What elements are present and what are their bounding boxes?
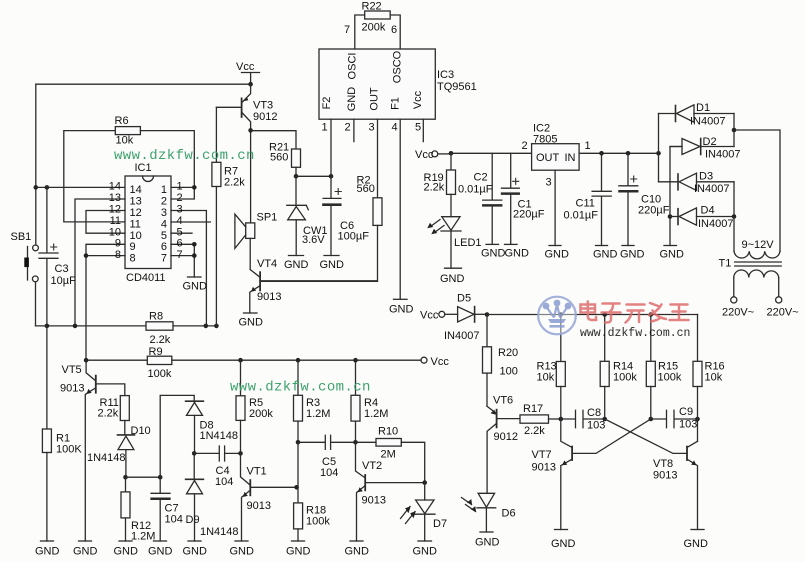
terminal Vcc R9 row <box>421 357 427 363</box>
svg-text:GND: GND <box>440 273 465 285</box>
svg-text:220V~: 220V~ <box>722 307 754 319</box>
svg-text:6: 6 <box>161 241 167 253</box>
terminal Vcc D5 row <box>439 311 458 317</box>
svg-text:3: 3 <box>161 207 167 219</box>
capacitor C1 <box>502 153 520 244</box>
svg-text:9~12V: 9~12V <box>742 239 775 251</box>
resistor R12 <box>121 477 130 541</box>
svg-text:100k: 100k <box>148 368 172 380</box>
wire pins6-7 to ground <box>171 244 194 277</box>
svg-text:11: 11 <box>110 215 121 227</box>
node D7 top <box>422 480 427 485</box>
svg-text:GND: GND <box>345 546 370 558</box>
node R18 top <box>294 485 299 490</box>
node VT1 base <box>238 451 243 456</box>
svg-text:GND: GND <box>660 249 685 261</box>
svg-text:9013: 9013 <box>532 462 556 474</box>
svg-text:220µF: 220µF <box>513 209 545 221</box>
svg-text:D2: D2 <box>703 136 717 148</box>
svg-text:GND: GND <box>73 546 98 558</box>
svg-text:C8: C8 <box>587 407 601 419</box>
svg-text:8: 8 <box>115 249 121 261</box>
svg-text:GND: GND <box>35 546 60 558</box>
svg-text:R8: R8 <box>149 311 163 323</box>
svg-text:Vcc: Vcc <box>431 356 450 368</box>
svg-text:LED1: LED1 <box>454 237 482 249</box>
svg-text:10k: 10k <box>116 135 134 147</box>
wire IC3 pin3 OUT to R2 <box>377 119 379 198</box>
node C9 left <box>649 417 654 422</box>
svg-text:560: 560 <box>270 152 288 164</box>
resistor R13 <box>556 315 565 420</box>
svg-text:1.2M: 1.2M <box>306 408 330 420</box>
resistor R17 <box>520 415 561 423</box>
transistor VT5 9013 <box>85 360 125 541</box>
svg-text:OSCO: OSCO <box>392 50 404 83</box>
svg-text:D3: D3 <box>699 171 713 183</box>
resistor R3 <box>294 360 303 442</box>
capacitor C6 <box>323 176 341 255</box>
svg-text:C9: C9 <box>679 406 693 418</box>
svg-text:R22: R22 <box>362 1 382 13</box>
svg-text:R6: R6 <box>115 115 129 127</box>
transistor VT4 9013 <box>250 270 378 314</box>
svg-text:7: 7 <box>344 24 350 36</box>
node R14 top <box>602 312 607 317</box>
svg-text:VT7: VT7 <box>532 449 552 461</box>
wire cross C9 to VT7 base <box>572 419 651 453</box>
node R13 bottom <box>559 417 564 422</box>
capacitor C5 <box>298 435 356 449</box>
svg-text:D4: D4 <box>701 205 715 217</box>
ground C1 <box>505 243 518 245</box>
node C7 top <box>158 475 163 480</box>
node R20 top <box>485 312 490 317</box>
node C8 right <box>602 417 607 422</box>
svg-text:9: 9 <box>130 241 136 253</box>
wire pin13 to R8 row <box>75 199 125 326</box>
svg-text:www.dzkfw.com.cn: www.dzkfw.com.cn <box>580 327 690 340</box>
wire IC3 pin5 stub <box>422 119 424 141</box>
ground VT5 <box>79 540 92 542</box>
watermark green url middle <box>230 380 371 396</box>
svg-text:VT4: VT4 <box>257 258 277 270</box>
svg-text:D7: D7 <box>433 518 447 530</box>
wire pin 14 row <box>36 186 125 188</box>
ground R12 <box>119 540 132 542</box>
svg-text:IN4007: IN4007 <box>690 116 725 128</box>
svg-text:GND: GND <box>593 249 618 261</box>
wire bridge left vertical <box>658 114 660 182</box>
node R15 top <box>649 312 654 317</box>
resistor R1 <box>42 326 51 541</box>
resistor R16 <box>693 315 702 442</box>
ground F1 <box>394 298 408 300</box>
node R8 row pin3 <box>204 324 209 329</box>
IC1 pin numbers inside right <box>161 184 167 265</box>
wire top rail <box>36 83 251 85</box>
svg-text:100µF: 100µF <box>338 231 370 243</box>
svg-text:GND: GND <box>684 538 709 550</box>
resistor R10 <box>356 439 425 483</box>
svg-text:14: 14 <box>130 184 142 196</box>
node VT3 emitter rail junction <box>248 82 253 87</box>
svg-text:1: 1 <box>177 181 183 193</box>
svg-text:GND: GND <box>346 87 358 112</box>
svg-text:GND: GND <box>505 248 530 260</box>
svg-text:D1: D1 <box>696 102 710 114</box>
svg-text:GND: GND <box>320 259 345 271</box>
wire pin1 pin2 tie <box>171 187 194 199</box>
node D1-D2 cathode <box>732 128 737 133</box>
watermark logo circle W <box>538 297 576 335</box>
svg-text:4: 4 <box>392 122 398 134</box>
ground bridge <box>664 245 677 247</box>
svg-text:6: 6 <box>177 238 183 250</box>
svg-text:2: 2 <box>345 122 351 134</box>
node pin14-left <box>34 185 39 190</box>
resistor R9 <box>86 356 421 364</box>
capacitor C9 <box>651 410 698 427</box>
svg-text:R10: R10 <box>378 426 398 438</box>
ground D6 <box>480 531 493 533</box>
wire pin4 stub <box>171 221 210 223</box>
IC IC3 TQ9561 <box>319 49 435 119</box>
svg-text:Vcc: Vcc <box>412 90 424 109</box>
IC IC2 7805 <box>532 144 580 171</box>
svg-text:10k: 10k <box>705 372 723 384</box>
wire D3-D4 right vertical <box>733 182 735 217</box>
svg-text:Vcc: Vcc <box>420 310 439 322</box>
svg-text:GND: GND <box>230 546 255 558</box>
svg-text:11: 11 <box>130 219 141 231</box>
svg-text:www.dzkfw.com.cn: www.dzkfw.com.cn <box>114 148 255 164</box>
diode D3 IN4007 <box>659 173 735 190</box>
wire IC3 pin4 F1 to ground <box>399 119 401 299</box>
svg-text:10µF: 10µF <box>51 275 77 287</box>
wire multivibrator rail <box>487 314 698 316</box>
ground IC2 <box>549 245 561 247</box>
ground IC1 pins 6-7 <box>188 276 202 278</box>
node R10 left <box>353 440 358 445</box>
node VT3 collector <box>248 128 253 133</box>
svg-text:1: 1 <box>161 184 167 196</box>
diode D5 IN4007 <box>458 307 487 322</box>
svg-text:OUT: OUT <box>536 152 560 164</box>
svg-text:5: 5 <box>415 122 421 134</box>
capacitor C7 <box>151 477 170 541</box>
svg-text:0.01µF: 0.01µF <box>458 184 493 196</box>
IC IC1 CD4011 <box>125 176 171 269</box>
diode D9 1N4148 <box>186 453 204 541</box>
node D4 cathode <box>732 214 737 219</box>
svg-text:SB1: SB1 <box>11 231 32 243</box>
capacitor C2 <box>483 153 502 244</box>
svg-text:D10: D10 <box>131 425 151 437</box>
svg-text:R9: R9 <box>149 346 163 358</box>
node C10 top <box>626 151 631 156</box>
transistor VT7 9013 <box>561 419 572 530</box>
wire D2 anode to ground column <box>670 147 682 246</box>
terminal Vcc IC2 row <box>432 151 451 157</box>
svg-text:F2: F2 <box>321 97 333 110</box>
node C11 top <box>599 151 604 156</box>
svg-text:3: 3 <box>177 204 183 216</box>
resistor R19 <box>447 153 456 216</box>
node C3 top <box>45 185 50 190</box>
IC1 pin numbers outside left <box>109 181 121 262</box>
node C5 left <box>296 440 301 445</box>
svg-text:100k: 100k <box>658 372 682 384</box>
svg-text:2.2k: 2.2k <box>524 425 545 437</box>
ground C10 <box>622 245 634 247</box>
svg-text:D6: D6 <box>502 508 516 520</box>
svg-text:D9: D9 <box>186 514 200 526</box>
capacitor C8 <box>561 410 605 427</box>
svg-text:100k: 100k <box>306 516 330 528</box>
wire IC2 pin3 to ground <box>554 170 556 245</box>
svg-text:9012: 9012 <box>253 111 277 123</box>
svg-text:4: 4 <box>161 219 167 231</box>
svg-text:F1: F1 <box>390 97 402 110</box>
power Vcc (VT3) <box>242 73 260 85</box>
svg-text:C11: C11 <box>576 198 595 210</box>
node CW1 top <box>294 174 299 179</box>
svg-text:103: 103 <box>587 420 605 432</box>
capacitor C10 <box>619 153 638 245</box>
node pin1 <box>192 185 197 190</box>
resistor R21 <box>251 131 301 177</box>
svg-text:GND: GND <box>183 546 208 558</box>
transistor VT3 9012 <box>216 84 250 130</box>
ground D9 <box>188 540 201 542</box>
ground C2 <box>486 243 499 245</box>
svg-text:VT5: VT5 <box>62 364 82 376</box>
node D4 anode <box>668 214 673 219</box>
svg-text:9013: 9013 <box>257 291 281 303</box>
svg-text:IN4007: IN4007 <box>705 149 740 161</box>
ground LED1 <box>445 267 462 269</box>
svg-text:7: 7 <box>177 249 183 261</box>
ground R18 <box>292 540 305 542</box>
svg-text:GND: GND <box>620 249 645 261</box>
svg-text:OSCI: OSCI <box>347 53 359 80</box>
resistor R20 <box>483 315 492 407</box>
svg-text:10k: 10k <box>537 372 555 384</box>
svg-text:2: 2 <box>177 192 183 204</box>
svg-text:100k: 100k <box>613 372 637 384</box>
ground VT8 <box>691 529 704 531</box>
node pins 8-9 <box>84 253 89 258</box>
svg-text:VT1: VT1 <box>247 466 267 478</box>
wire IC3 pin1 F2 down to C6 <box>330 119 332 176</box>
node VT5 top <box>84 358 89 363</box>
node bridge junction <box>656 151 661 156</box>
svg-text:Vcc: Vcc <box>236 61 255 73</box>
node C6 top <box>329 174 334 179</box>
svg-text:GND: GND <box>475 537 500 549</box>
resistor R8 <box>36 322 217 330</box>
LED D7 <box>401 483 436 541</box>
node R13 top <box>559 312 564 317</box>
resistor R6 <box>64 127 195 222</box>
svg-text:100K: 100K <box>56 444 82 456</box>
svg-text:12: 12 <box>109 204 121 216</box>
svg-text:2.2k: 2.2k <box>424 182 445 194</box>
svg-text:220V~: 220V~ <box>767 307 799 319</box>
svg-text:VT8: VT8 <box>653 458 673 470</box>
resistor R18 <box>294 503 303 541</box>
speaker SP1 <box>235 130 255 269</box>
watermark chinese title <box>581 302 689 323</box>
svg-text:GND: GND <box>183 281 208 293</box>
svg-text:1.2M: 1.2M <box>364 408 388 420</box>
svg-text:OUT: OUT <box>368 87 380 111</box>
resistor R4 <box>351 360 360 442</box>
wire CW1 to C6 row <box>296 175 331 177</box>
ground VT4 <box>244 312 258 314</box>
svg-text:2.2k: 2.2k <box>224 177 245 189</box>
wire D1-D2 right vertical <box>733 114 735 147</box>
svg-text:13: 13 <box>109 192 121 204</box>
node R19 top <box>449 151 454 156</box>
svg-text:1: 1 <box>585 140 591 152</box>
wire D10 to C7 <box>126 476 161 478</box>
transistor VT8 9013 <box>687 441 698 529</box>
svg-text:www.dzkfw.com.cn: www.dzkfw.com.cn <box>230 380 371 396</box>
svg-text:9013: 9013 <box>60 383 84 395</box>
svg-text:1N4148: 1N4148 <box>200 526 239 538</box>
svg-text:TQ9561: TQ9561 <box>437 81 477 93</box>
svg-text:104: 104 <box>215 476 233 488</box>
ground R1 <box>41 540 54 542</box>
LED LED1 <box>427 217 461 269</box>
zener CW1 <box>287 176 309 255</box>
svg-text:VT6: VT6 <box>493 395 513 407</box>
node R4 top <box>353 358 358 363</box>
ground CW1 <box>289 255 304 257</box>
svg-text:14: 14 <box>109 181 121 193</box>
wire IC3 pin2 stub <box>353 119 355 141</box>
svg-text:IN4007: IN4007 <box>444 330 479 342</box>
svg-text:D5: D5 <box>457 293 471 305</box>
transistor VT1 9013 <box>241 453 297 541</box>
svg-text:9013: 9013 <box>653 470 677 482</box>
transistor VT6 9012 <box>487 406 520 493</box>
node pin7 <box>192 253 197 258</box>
diode D10 1N4148 <box>118 435 135 477</box>
ground VT1 <box>235 540 248 542</box>
svg-text:4: 4 <box>177 215 183 227</box>
svg-text:1N4148: 1N4148 <box>87 452 126 464</box>
svg-text:1.2M: 1.2M <box>131 531 155 543</box>
wire left column from rail to pin14 row <box>35 84 37 245</box>
ground D7 <box>418 540 432 542</box>
svg-text:2.2k: 2.2k <box>150 334 171 346</box>
svg-text:GND: GND <box>389 304 414 316</box>
svg-text:3: 3 <box>369 122 375 134</box>
svg-text:GND: GND <box>545 249 570 261</box>
resistor R11 <box>120 396 129 435</box>
capacitor C11 <box>592 153 611 245</box>
ground C7 <box>154 540 167 542</box>
wire cross C8 to VT8 base <box>605 419 687 453</box>
svg-text:GND: GND <box>239 317 264 329</box>
svg-text:GND: GND <box>148 546 173 558</box>
svg-text:GND: GND <box>284 259 309 271</box>
ground C6 <box>324 255 339 257</box>
resistor R5 <box>236 360 245 453</box>
svg-text:GND: GND <box>286 546 311 558</box>
svg-text:200k: 200k <box>249 408 273 420</box>
wire C7 node up to D8 <box>160 395 194 477</box>
wire pin12 to pin10 <box>86 211 125 234</box>
svg-text:9013: 9013 <box>247 500 271 512</box>
svg-text:100: 100 <box>500 366 518 378</box>
svg-text:104: 104 <box>320 467 338 479</box>
svg-text:8: 8 <box>130 253 136 265</box>
photodiode D6 <box>462 493 496 532</box>
node D8 bottom <box>192 451 197 456</box>
svg-text:103: 103 <box>679 419 697 431</box>
node D10 bottom <box>123 475 128 480</box>
wire rail to IC2 <box>451 152 532 154</box>
node R8 row pin13 <box>73 324 78 329</box>
svg-text:GND: GND <box>481 248 506 260</box>
diode D4 IN4007 <box>670 208 734 225</box>
svg-text:R20: R20 <box>498 347 518 359</box>
svg-text:220µF: 220µF <box>638 205 670 217</box>
svg-text:Vcc: Vcc <box>415 149 434 161</box>
node R8 row C3 <box>45 324 50 329</box>
wire SB1 bottom to R8 row <box>35 282 37 326</box>
svg-text:7: 7 <box>161 253 167 265</box>
svg-text:12: 12 <box>130 207 142 219</box>
svg-text:CD4011: CD4011 <box>126 272 166 284</box>
svg-text:0.01µF: 0.01µF <box>564 210 599 222</box>
wire to transformer secondary right <box>734 130 780 251</box>
transistor VT2 9013 <box>356 442 425 541</box>
svg-text:7805: 7805 <box>533 134 557 146</box>
node R5 top <box>238 358 243 363</box>
svg-text:104: 104 <box>165 514 183 526</box>
wire pin3 down to R8 row <box>171 211 206 326</box>
svg-text:R17: R17 <box>523 403 543 415</box>
svg-text:200k: 200k <box>362 22 386 34</box>
svg-text:9: 9 <box>115 238 121 250</box>
svg-text:IN: IN <box>565 152 576 164</box>
ground C11 <box>596 245 608 247</box>
wire pin9 to pin8 and down to R9 row <box>86 244 125 360</box>
svg-text:C3: C3 <box>55 263 69 275</box>
svg-text:9012: 9012 <box>494 431 518 443</box>
svg-text:3.6V: 3.6V <box>302 234 325 246</box>
ground VT2 <box>350 540 363 542</box>
svg-text:13: 13 <box>130 196 142 208</box>
watermark pink url <box>580 327 690 340</box>
watermark green url top <box>114 148 255 164</box>
svg-text:SP1: SP1 <box>257 212 278 224</box>
svg-text:1: 1 <box>322 122 328 134</box>
pushbutton SB1 <box>24 245 38 282</box>
diode D8 1N4148 <box>186 401 204 453</box>
svg-text:GND: GND <box>114 546 139 558</box>
wire R3 node down to R18 <box>297 442 299 503</box>
svg-text:2.2k: 2.2k <box>98 408 119 420</box>
svg-text:IN4007: IN4007 <box>694 183 729 195</box>
svg-text:9013: 9013 <box>362 495 386 507</box>
transformer T1 <box>731 251 782 303</box>
